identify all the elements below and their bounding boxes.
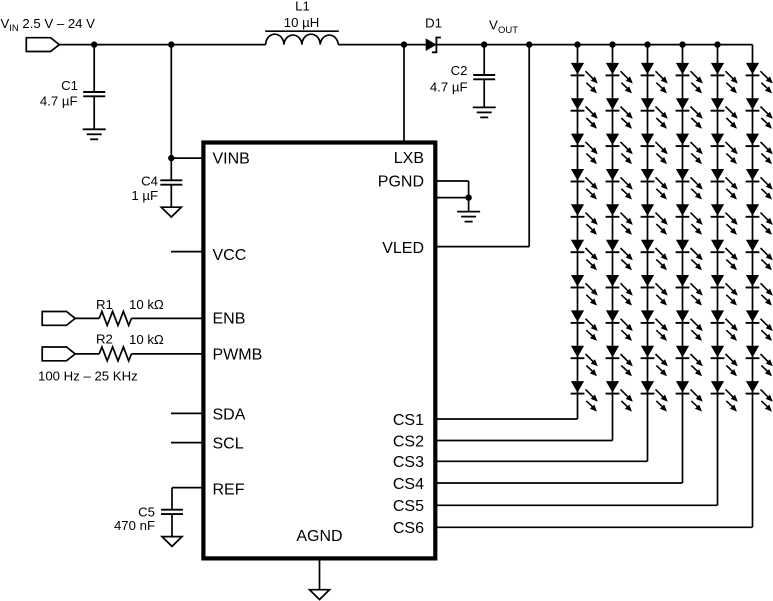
LED col3 row4	[641, 169, 668, 200]
svg-text:V: V	[1, 16, 10, 31]
svg-text:C2: C2	[451, 63, 468, 78]
wire inductor to diode	[338, 44, 426, 46]
PWMB input terminal	[42, 347, 75, 361]
LED col1 row2	[571, 98, 598, 129]
LED col5 row6	[711, 240, 738, 271]
LED col5 row4	[711, 169, 738, 200]
LED col1 row1	[571, 63, 598, 94]
LED col2 row2	[606, 98, 633, 129]
wire SDA stub	[171, 412, 204, 414]
svg-text:R2: R2	[96, 332, 113, 347]
LED col6 row5	[746, 204, 773, 235]
LED col3 row1	[641, 63, 668, 94]
svg-text:C5: C5	[138, 504, 155, 519]
LED col6 row7	[746, 275, 773, 306]
svg-text:VCC: VCC	[213, 247, 247, 264]
svg-text:470 nF: 470 nF	[114, 518, 155, 533]
LED col4 row7	[676, 275, 703, 306]
svg-text:CS4: CS4	[393, 476, 424, 493]
svg-text:10 kΩ: 10 kΩ	[129, 297, 164, 312]
junction col3	[644, 41, 650, 47]
LED col5 row7	[711, 275, 738, 306]
LED col3 row2	[641, 98, 668, 129]
LED col4 row5	[676, 204, 703, 235]
LED col2 row4	[606, 169, 633, 200]
diode D1 (Schottky)	[426, 39, 435, 50]
svg-text:IN: IN	[9, 23, 19, 34]
LED col5 row10	[711, 381, 738, 412]
junction VLED	[526, 41, 532, 47]
wire rail down to VINB node	[170, 45, 172, 180]
LED col6 row8	[746, 310, 773, 341]
wire terminal to R1	[75, 317, 99, 319]
LED col4 row4	[676, 169, 703, 200]
wire PGND pin 2	[436, 197, 469, 199]
LED col4 row3	[676, 134, 703, 165]
LED col3 row7	[641, 275, 668, 306]
capacitor C5	[161, 509, 183, 511]
wire terminal to R2	[75, 353, 99, 355]
svg-text:VINB: VINB	[213, 150, 250, 167]
ground (AGND)	[310, 590, 330, 600]
LED col4 row6	[676, 240, 703, 271]
LED col2 row10	[606, 381, 633, 412]
resistor R2	[99, 347, 131, 361]
LED col3 row8	[641, 310, 668, 341]
svg-text:10 µH: 10 µH	[284, 15, 319, 30]
ground (C1)	[83, 129, 106, 139]
junction VINB-C4	[168, 155, 174, 161]
junction col1	[574, 41, 580, 47]
LED col5 row1	[711, 63, 738, 94]
junction col5	[714, 41, 720, 47]
wire SCL stub	[171, 442, 204, 444]
svg-text:L1: L1	[295, 0, 310, 14]
ground (PGND)	[457, 212, 480, 222]
LED col2 row5	[606, 204, 633, 235]
LED col5 row2	[711, 98, 738, 129]
svg-text:CS6: CS6	[393, 520, 424, 537]
svg-text:R1: R1	[96, 297, 113, 312]
LED col6 row3	[746, 134, 773, 165]
wire VIN rail to inductor	[59, 44, 265, 46]
junction VOUT	[481, 41, 487, 47]
LED col3 row10	[641, 381, 668, 412]
svg-text:ENB: ENB	[213, 310, 246, 327]
LED col4 row2	[676, 98, 703, 129]
wire R1 to ENB pin	[131, 317, 204, 319]
wire node to VINB pin	[171, 157, 204, 159]
wire REF pin to C5	[172, 487, 204, 489]
LED col4 row1	[676, 63, 703, 94]
LED string column 5 (CS5)	[436, 45, 738, 506]
op-amp/driver IC U1	[203, 143, 435, 559]
LED col3 row3	[641, 134, 668, 165]
junction VINB	[168, 41, 174, 47]
resistor R1	[99, 311, 131, 325]
LED col1 row7	[571, 275, 598, 306]
svg-text:CS3: CS3	[393, 454, 424, 471]
LED col6 row10	[746, 381, 773, 412]
LED col6 row9	[746, 346, 773, 377]
junction col4	[679, 41, 685, 47]
LED string column 3 (CS3)	[436, 45, 668, 462]
junction col2	[609, 41, 615, 47]
LED col3 row6	[641, 240, 668, 271]
LED col2 row6	[606, 240, 633, 271]
VIN input terminal	[26, 38, 59, 52]
svg-text:4.7 µF: 4.7 µF	[40, 93, 78, 108]
LED col1 row10	[571, 381, 598, 412]
svg-text:CS5: CS5	[393, 498, 424, 515]
ground (C2)	[473, 107, 496, 117]
junction C1	[91, 41, 97, 47]
svg-text:REF: REF	[213, 482, 245, 499]
LED col1 row6	[571, 240, 598, 271]
wire VOUT to C2	[483, 45, 485, 75]
LED col5 row5	[711, 204, 738, 235]
junction LXB	[401, 41, 407, 47]
LED string column 2 (CS2)	[436, 45, 633, 441]
LED col6 row6	[746, 240, 773, 271]
svg-text:V: V	[489, 18, 498, 33]
wire rail to C1	[93, 45, 95, 92]
LED col2 row8	[606, 310, 633, 341]
svg-text:AGND: AGND	[296, 528, 342, 545]
svg-text:VLED: VLED	[382, 240, 424, 257]
capacitor C2	[473, 74, 495, 76]
LED col2 row9	[606, 346, 633, 377]
LED col5 row3	[711, 134, 738, 165]
svg-text:D1: D1	[425, 16, 442, 31]
LED col1 row5	[571, 204, 598, 235]
svg-text:SDA: SDA	[213, 406, 246, 423]
wire R2 to PWMB pin	[131, 353, 204, 355]
svg-text:CS1: CS1	[393, 412, 424, 429]
svg-text:PWMB: PWMB	[213, 346, 263, 363]
LED col6 row4	[746, 169, 773, 200]
LED col6 row1	[746, 63, 773, 94]
LED col3 row5	[641, 204, 668, 235]
LED col5 row9	[711, 346, 738, 377]
LED col2 row1	[606, 63, 633, 94]
capacitor C1	[83, 91, 105, 93]
svg-text:10 kΩ: 10 kΩ	[129, 332, 164, 347]
svg-text:2.5 V – 24 V: 2.5 V – 24 V	[22, 16, 95, 31]
ENB input terminal	[42, 312, 75, 326]
LED string column 1 (CS1)	[436, 45, 598, 419]
LED col5 row8	[711, 310, 738, 341]
LED col1 row8	[571, 310, 598, 341]
svg-text:LXB: LXB	[394, 150, 424, 167]
svg-text:OUT: OUT	[498, 25, 518, 36]
LED col4 row9	[676, 346, 703, 377]
wire VCC stub	[171, 251, 204, 253]
LED col3 row9	[641, 346, 668, 377]
wire AGND pin to ground	[319, 559, 321, 590]
svg-text:1 µF: 1 µF	[131, 188, 158, 203]
LED col6 row2	[746, 98, 773, 129]
wire PGND down	[468, 181, 470, 212]
ground (C5)	[162, 537, 182, 547]
LED string column 4 (CS4)	[436, 45, 703, 483]
capacitor C4	[160, 179, 182, 181]
LED col2 row3	[606, 134, 633, 165]
svg-text:CS2: CS2	[393, 433, 424, 450]
LED col2 row7	[606, 275, 633, 306]
svg-text:4.7 µF: 4.7 µF	[430, 79, 468, 94]
svg-text:100 Hz – 25 KHz: 100 Hz – 25 KHz	[38, 368, 138, 383]
svg-text:C1: C1	[61, 78, 78, 93]
LED col1 row3	[571, 134, 598, 165]
wire rail to LXB (top entry)	[403, 45, 405, 141]
LED col4 row8	[676, 310, 703, 341]
LED col4 row10	[676, 381, 703, 412]
wire VOUT to VLED	[528, 45, 530, 247]
wire PGND pin 1	[436, 180, 469, 182]
inductor L1	[266, 34, 339, 44]
ground (C4)	[161, 207, 181, 217]
junction PGND	[465, 194, 471, 200]
svg-text:C4: C4	[141, 173, 158, 188]
svg-text:SCL: SCL	[213, 435, 244, 452]
svg-text:PGND: PGND	[378, 173, 424, 190]
LED col1 row4	[571, 169, 598, 200]
LED col1 row9	[571, 346, 598, 377]
wire diode to LED rail	[436, 44, 752, 46]
LED string column 6 (CS6)	[436, 45, 773, 528]
